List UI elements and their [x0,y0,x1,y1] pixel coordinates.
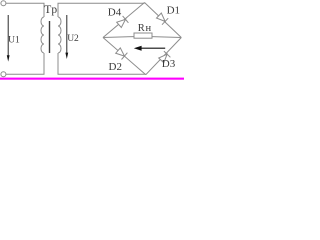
diode D1 [157,13,169,25]
svg-text:U2: U2 [67,34,79,44]
wire primary top rail [6,3,44,17]
diode D2 [116,48,128,60]
resistor Rн [134,33,152,38]
svg-text:U1: U1 [8,35,20,45]
wire primary bottom [6,53,44,74]
bridge diagonal left-bottom [103,38,146,75]
transformer Tp primary winding [41,17,44,53]
voltage arrow U2 [66,15,68,53]
svg-text:Tp: Tp [44,4,57,16]
svg-text:D1: D1 [167,5,180,17]
terminal bottom-left [1,72,6,77]
current arrow through load [139,47,165,49]
wire secondary top rail to bridge [58,3,145,17]
wire middle rail left [103,36,134,39]
terminal top-left [1,1,6,6]
svg-text:D3: D3 [162,58,176,70]
bridge diagonal left-top [103,3,145,38]
wire middle rail right [152,36,181,39]
transformer Tp secondary winding [58,17,61,53]
svg-text:D4: D4 [108,7,122,19]
bridge diagonal top-right [145,3,182,38]
wire secondary bottom rail to bridge [58,53,146,74]
bridge diagonal bottom-right [146,38,182,75]
transformer Tp core [49,21,51,53]
diode D4 [117,16,129,28]
voltage arrow U1 [7,15,9,56]
svg-text:R: R [138,23,145,34]
svg-text:D2: D2 [109,61,122,73]
diode D3 [159,51,171,63]
svg-text:н: н [146,23,152,34]
magenta underline [0,78,184,80]
